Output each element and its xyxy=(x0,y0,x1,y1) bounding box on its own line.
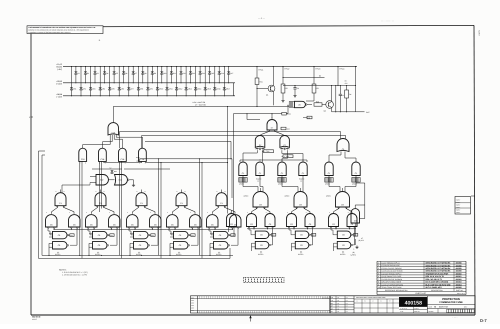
wire long descenders xyxy=(120,158,203,258)
svg-text:C6: C6 xyxy=(230,223,232,226)
gate C13 mid xyxy=(109,175,134,186)
resistor R3 column xyxy=(94,66,99,83)
wire bottom bus B xyxy=(39,248,231,258)
svg-text:R22: R22 xyxy=(285,87,288,90)
wire row5 to row6 1 xyxy=(48,228,77,245)
wire subtree 2 xyxy=(92,206,115,214)
label box TCB xyxy=(282,155,294,158)
gate row5 left C2 xyxy=(46,212,58,228)
resistor R5 column xyxy=(113,66,118,83)
notice box xyxy=(27,26,103,34)
svg-text:C6: C6 xyxy=(332,223,334,226)
title block xyxy=(330,296,475,313)
wire bus right y228.8 xyxy=(247,228,356,230)
wire crossbars mid xyxy=(92,106,232,214)
gate C2 row4 xyxy=(55,190,66,206)
svg-text:R25: R25 xyxy=(316,101,319,104)
gate row5 left C3 xyxy=(86,212,98,228)
svg-text:·· — ··: ·· — ·· xyxy=(452,317,458,319)
svg-text:C6: C6 xyxy=(131,223,133,226)
svg-text:C10: C10 xyxy=(111,131,114,134)
svg-text:C6: C6 xyxy=(260,234,262,237)
svg-text:52257-02: 52257-02 xyxy=(439,306,449,309)
diode CR6 column xyxy=(118,66,124,96)
svg-text:TP101: TP101 xyxy=(258,68,263,71)
gate row5R left 3 xyxy=(329,212,339,228)
resistor R6 column xyxy=(122,66,127,83)
gate row6R bottom 2 xyxy=(292,241,311,251)
svg-text:REV: REV xyxy=(191,307,194,309)
svg-text:C6: C6 xyxy=(194,223,196,226)
svg-text:R21: R21 xyxy=(260,81,263,84)
svg-text:R23: R23 xyxy=(316,87,319,90)
resistor R23 xyxy=(306,84,319,101)
svg-text:C6: C6 xyxy=(154,223,156,226)
gate C1B row2-3 xyxy=(119,148,127,164)
label gates right 3 xyxy=(340,251,345,256)
svg-text:9-4: 9-4 xyxy=(346,303,348,305)
resistor R31 xyxy=(110,167,117,175)
gate row5 right C2 xyxy=(69,212,81,228)
sheet number text outside top right xyxy=(381,21,481,37)
gate C7 top xyxy=(267,116,277,130)
svg-text:C6: C6 xyxy=(234,223,236,226)
svg-text:C6: C6 xyxy=(98,244,100,247)
svg-text:C6: C6 xyxy=(211,223,213,226)
gate row6R top 3 xyxy=(337,231,358,238)
gate row5R right 3 xyxy=(347,212,357,228)
resistor box R42 xyxy=(303,116,312,119)
svg-text:52257: 52257 xyxy=(478,30,481,36)
resistor R22 xyxy=(281,84,288,102)
wire row5 to row6 2 xyxy=(88,228,117,245)
gate row5 right C4 xyxy=(150,212,162,228)
wire bottom bus A xyxy=(42,255,233,256)
label gates 4 xyxy=(176,251,181,256)
svg-text:REV: REV xyxy=(191,310,194,312)
diode CR17 column xyxy=(223,66,230,96)
wire LOW+MA/T-RB xyxy=(113,101,289,123)
svg-text:C6: C6 xyxy=(260,244,262,247)
svg-text:— ··· —— · —: — ··· —— · — xyxy=(381,21,394,23)
input bundle row3-2 xyxy=(278,178,286,186)
socket strip xyxy=(244,278,285,283)
wire row5 to row6 5 xyxy=(209,228,238,245)
resistor R8 column xyxy=(141,66,146,83)
reference mark xyxy=(99,39,101,42)
svg-text:MADE: MADE xyxy=(32,318,38,321)
svg-text:C9: C9 xyxy=(342,148,344,151)
svg-text:C1: C1 xyxy=(328,172,330,175)
wire output bus xyxy=(332,66,370,114)
svg-text:C1: C1 xyxy=(302,172,304,175)
test point TP104 xyxy=(337,66,344,86)
label box TCA xyxy=(262,150,274,153)
gate row6 bottom 4 xyxy=(169,242,189,256)
svg-text:9-4: 9-4 xyxy=(346,306,348,308)
sheet mark top center xyxy=(258,17,266,20)
svg-text:C6: C6 xyxy=(98,234,100,237)
resistor R24 xyxy=(345,85,352,112)
svg-text:C6: C6 xyxy=(219,244,221,247)
resistor R12 column xyxy=(180,66,186,83)
resistor R7 column xyxy=(132,66,137,83)
resistor R1 column xyxy=(75,66,80,83)
gate C1B row2-2 xyxy=(99,148,107,164)
svg-text:C7: C7 xyxy=(271,126,273,129)
svg-text:C7: C7 xyxy=(259,144,261,147)
capacitor C4 xyxy=(339,85,344,112)
svg-text:REV DWG: REV DWG xyxy=(322,297,330,299)
resistor box R41 xyxy=(281,127,290,130)
gate C10 row3 xyxy=(239,162,247,176)
wire subtree right 1 xyxy=(252,207,271,214)
gate C3 row4 xyxy=(95,190,106,206)
svg-text:LOW + MA/T-RB: LOW + MA/T-RB xyxy=(193,101,206,104)
label gates 1 xyxy=(55,251,60,256)
gate row6 top 2 xyxy=(89,231,114,238)
wire row6R 1 xyxy=(249,228,273,245)
resistor R21 xyxy=(255,78,263,107)
svg-text:C6: C6 xyxy=(73,223,75,226)
gate row6 top 1 xyxy=(49,231,74,238)
svg-text:C6: C6 xyxy=(113,223,115,226)
svg-text:— 4 —: — 4 — xyxy=(258,17,266,20)
diode CR11 column xyxy=(166,66,173,96)
parts list table xyxy=(377,261,466,295)
gate row6R top 1 xyxy=(255,231,275,238)
svg-text:2. CR IN ON EACH IC = 1 (TP): 2. CR IN ON EACH IC = 1 (TP) xyxy=(62,274,87,277)
svg-text:TP102: TP102 xyxy=(284,67,289,70)
gate row5 right C6 xyxy=(230,212,242,228)
svg-text:C6: C6 xyxy=(219,234,221,237)
svg-text:9-4: 9-4 xyxy=(346,308,348,310)
wire +5V distribution xyxy=(282,75,355,86)
gate C1B row2-4 xyxy=(139,148,147,164)
svg-text:C6: C6 xyxy=(342,244,344,247)
svg-text:9-4: 9-4 xyxy=(346,297,348,299)
svg-text:D-7: D-7 xyxy=(480,318,487,323)
gate C5 row4 xyxy=(176,190,187,206)
gate row6R bottom 3 xyxy=(334,241,353,251)
svg-text:C1: C1 xyxy=(355,172,357,175)
svg-text:Q1: Q1 xyxy=(266,94,268,97)
svg-text:NOTES:: NOTES: xyxy=(59,268,67,271)
label gates 2 xyxy=(95,251,100,256)
power rail +12V xyxy=(56,80,235,85)
power rail -12V xyxy=(56,93,235,98)
svg-text:C8: C8 xyxy=(299,203,301,206)
gate row5R right 1 xyxy=(265,212,275,228)
gate row6 top 4 xyxy=(170,231,195,238)
label gates right 1 xyxy=(258,251,263,256)
svg-text:C8: C8 xyxy=(341,203,343,206)
svg-text:400158: 400158 xyxy=(405,301,422,307)
svg-text:C4: C4 xyxy=(180,202,182,205)
svg-text:9-4: 9-4 xyxy=(346,311,348,313)
arrow mark below border xyxy=(249,315,251,321)
gate C14 row3 xyxy=(325,162,333,176)
gate row5 left C4 xyxy=(127,212,139,228)
wire left drop xyxy=(39,151,46,258)
resistor R4 column xyxy=(103,66,108,83)
resistor R15 column xyxy=(208,66,214,83)
diode CR8 column xyxy=(137,66,143,96)
svg-text:C3: C3 xyxy=(354,219,356,222)
wire row5R extra output xyxy=(229,211,235,237)
wire row5 to row6 3 xyxy=(129,228,158,245)
svg-text:C6: C6 xyxy=(179,244,181,247)
gate row5R extra xyxy=(227,214,237,227)
diode CR16 column xyxy=(213,66,220,96)
wire right output xyxy=(351,223,364,256)
svg-text:C6: C6 xyxy=(139,234,141,237)
gate row6 bottom 3 xyxy=(129,242,149,256)
wire fanout C10 xyxy=(83,135,143,148)
svg-text:9-4: 9-4 xyxy=(346,300,348,302)
wire right tree distribution xyxy=(240,159,307,162)
diode CR10 column xyxy=(156,66,163,96)
sheet id D-7 outside bottom right xyxy=(452,317,487,323)
gate C4 row4 xyxy=(136,190,147,206)
gate U5 input bundle xyxy=(289,102,294,108)
gate row6 top 3 xyxy=(130,231,155,238)
wire to right tree gate C9 xyxy=(120,132,346,149)
svg-text:Q2: Q2 xyxy=(324,110,326,113)
svg-text:AT + MA/T-RB: AT + MA/T-RB xyxy=(195,104,207,107)
svg-text:C6: C6 xyxy=(342,234,344,237)
diode CR3 column xyxy=(89,66,95,96)
diode CR13 column xyxy=(185,66,192,96)
gate C15 row3 xyxy=(352,162,360,176)
svg-text:C6: C6 xyxy=(290,223,292,226)
diode CR12 column xyxy=(175,66,182,96)
wire C7 inputs xyxy=(261,113,284,135)
gate row5 left C6 xyxy=(207,212,219,228)
gate C13 row3 xyxy=(299,162,307,176)
svg-text:C4: C4 xyxy=(59,202,61,205)
resistor R13 column xyxy=(189,66,195,83)
svg-text:1. R IN Ω ON EACH IC = 1 (TC): 1. R IN Ω ON EACH IC = 1 (TC) xyxy=(62,271,88,274)
diode CR14 column xyxy=(194,66,201,96)
transistor Q2 xyxy=(324,85,334,113)
reference drawing box xyxy=(455,197,471,215)
svg-text:REV: REV xyxy=(191,305,194,307)
svg-text:C6: C6 xyxy=(90,223,92,226)
svg-text:C8: C8 xyxy=(259,203,261,206)
border zone tick xyxy=(29,116,33,119)
svg-text:C7: C7 xyxy=(283,144,285,147)
gate row6R bottom 1 xyxy=(252,241,271,251)
resistor R17 column xyxy=(227,66,233,83)
label row3-1 xyxy=(256,178,261,183)
test point TP102 xyxy=(282,66,289,84)
wire node C141 xyxy=(233,105,291,214)
gate row6R top 2 xyxy=(295,231,316,238)
gate C8 row4-3 xyxy=(326,188,350,207)
svg-text:C4: C4 xyxy=(99,202,101,205)
diode CR5 column xyxy=(108,66,114,96)
diode CR1 column xyxy=(70,66,76,96)
svg-text:C6: C6 xyxy=(171,223,173,226)
svg-text:C4: C4 xyxy=(140,202,142,205)
svg-text:C6: C6 xyxy=(300,244,302,247)
svg-text:C6: C6 xyxy=(250,223,252,226)
notes text xyxy=(59,268,88,276)
svg-text:OUT: OUT xyxy=(366,111,370,114)
svg-text:REV: REV xyxy=(191,297,194,299)
gate row6 top 5 xyxy=(210,231,235,238)
svg-text:C1: C1 xyxy=(242,172,244,175)
wire subtree 5 xyxy=(213,206,236,214)
gate U5 xyxy=(294,101,312,107)
svg-text:REV: REV xyxy=(191,300,194,302)
gate C7A row2 xyxy=(255,135,264,149)
gate row5 left C5 xyxy=(167,212,179,228)
svg-text:C6: C6 xyxy=(58,234,60,237)
wire right vertical xyxy=(356,183,365,219)
svg-text:※: ※ xyxy=(99,39,101,42)
transistor Q1 xyxy=(256,66,274,105)
gate C8 row4-2 xyxy=(285,188,308,207)
gate C11 row3 xyxy=(256,162,264,176)
label gates right 2 xyxy=(298,251,303,256)
resistor R16 column xyxy=(218,66,224,83)
wire rail end join xyxy=(232,83,234,96)
gate C12 mid xyxy=(62,175,108,193)
stamp text outside bottom left xyxy=(32,316,41,321)
capacitor C6 xyxy=(293,85,299,97)
gate row6 bottom 5 xyxy=(209,242,229,256)
gate row5R right 2 xyxy=(305,212,315,228)
label gates 3 xyxy=(136,251,141,256)
wire subtree 4 xyxy=(173,206,196,214)
svg-text:C12: C12 xyxy=(100,179,103,182)
svg-text:TP104: TP104 xyxy=(339,67,344,70)
diode CR2 column xyxy=(80,66,86,96)
gate C12 row3 xyxy=(278,162,286,176)
label gates 5 xyxy=(216,251,221,256)
svg-text:C1: C1 xyxy=(281,172,283,175)
gate row5R left 1 xyxy=(247,212,257,228)
resistor R11 column xyxy=(170,66,176,83)
wire row6R 3 xyxy=(331,228,355,245)
wire row5 to row6 4 xyxy=(169,228,198,245)
gate C10 top xyxy=(108,123,119,135)
wire row3R to row4R xyxy=(243,176,356,192)
test point TP101 xyxy=(256,66,263,78)
svg-text:C6: C6 xyxy=(139,244,141,247)
gate row5 right C3 xyxy=(109,212,121,228)
svg-text:REV: REV xyxy=(191,302,194,304)
gate C6 row4 xyxy=(216,190,227,206)
svg-text:C18: C18 xyxy=(81,158,84,161)
wire row2 to row3 right xyxy=(243,150,356,162)
diode CR4 column xyxy=(99,66,105,96)
svg-text:C6: C6 xyxy=(269,223,271,226)
svg-text:U5: U5 xyxy=(298,103,300,106)
input bundle row3-4 xyxy=(325,178,333,186)
input bundle row3-0 xyxy=(239,178,247,186)
power rail +5V xyxy=(57,63,357,71)
wire row2 interconnect xyxy=(80,159,142,259)
input bundle row3-5 xyxy=(352,178,360,186)
svg-text:(-12V): (-12V) xyxy=(56,95,62,98)
label crossbar signals xyxy=(136,156,140,163)
resistor R2 column xyxy=(84,66,89,83)
resistor R10 column xyxy=(160,66,166,83)
test point TP103 xyxy=(313,66,320,84)
wire subtree right 2 xyxy=(292,207,311,214)
svg-text:(+5V): (+5V) xyxy=(57,68,62,71)
border tick right xyxy=(471,195,475,197)
svg-text:C1: C1 xyxy=(259,172,261,175)
diode CR7 column xyxy=(127,66,133,96)
svg-text:C6: C6 xyxy=(309,223,311,226)
svg-text:CONTRACTOR'S & DWG CONDITION C: CONTRACTOR'S & DWG CONDITION CODE xyxy=(356,297,386,299)
gate row5 right C5 xyxy=(190,212,202,228)
border frame xyxy=(31,25,475,315)
gate row6 bottom 2 xyxy=(88,242,108,256)
svg-text:TP103: TP103 xyxy=(315,67,320,70)
gate row5R left 2 xyxy=(287,212,297,228)
wire subtree 1 xyxy=(52,206,75,214)
wire subtree right 3 xyxy=(334,207,353,214)
svg-text:C6: C6 xyxy=(179,234,181,237)
gate C7B row2 xyxy=(280,135,290,149)
ground mid xyxy=(132,184,135,187)
svg-text:COMBINATOR CVBE: COMBINATOR CVBE xyxy=(439,301,463,304)
svg-text:C6: C6 xyxy=(300,234,302,237)
svg-text:C13: C13 xyxy=(119,179,122,182)
svg-text:(+12V): (+12V) xyxy=(56,82,62,85)
gate C3 right xyxy=(351,205,365,223)
capacitor C7 xyxy=(335,85,336,112)
revision strip xyxy=(191,296,331,313)
resistor R25 xyxy=(314,101,326,107)
label row3-3 xyxy=(299,178,304,183)
svg-text:C6: C6 xyxy=(58,244,60,247)
gate C8 row4-1 xyxy=(244,188,269,207)
gate row6 bottom 1 xyxy=(48,242,68,256)
svg-text:C6: C6 xyxy=(50,223,52,226)
gate C9 row2 xyxy=(337,139,349,152)
diode CR15 column xyxy=(204,66,211,96)
gate C18 row2-1 xyxy=(79,148,87,164)
wire subtree 3 xyxy=(133,206,156,214)
wire row6R 2 xyxy=(289,228,313,245)
resistor R14 column xyxy=(199,66,205,83)
diode CR9 column xyxy=(147,66,153,96)
svg-text:C4: C4 xyxy=(220,202,222,205)
wire bus y229 xyxy=(54,228,233,230)
resistor R9 column xyxy=(151,66,156,83)
svg-text:C6: C6 xyxy=(297,87,299,90)
